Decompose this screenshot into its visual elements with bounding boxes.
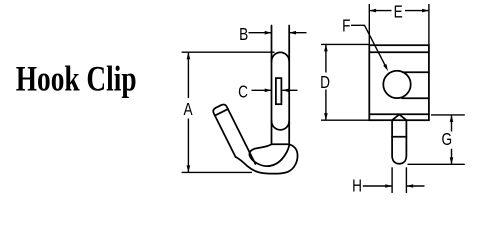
svg-text:Hook Clip: Hook Clip <box>16 59 137 98</box>
dimension B line left <box>249 32 272 34</box>
dimension C line left <box>252 89 272 91</box>
side view: C boss rectangle <box>276 78 282 104</box>
side view: dome top <box>272 52 290 61</box>
svg-text:C: C <box>238 83 248 102</box>
front view: stem cross line <box>392 136 406 138</box>
side view: inner U arc <box>272 121 290 130</box>
front view: top interior band <box>369 51 429 53</box>
dimension G top extension <box>431 114 465 116</box>
dimension A top extension <box>182 51 275 53</box>
side view: hook outer bend <box>236 144 298 173</box>
dimension G bottom extension <box>408 163 465 165</box>
svg-text:D: D <box>320 74 330 93</box>
dimension E left extension <box>368 4 370 45</box>
svg-text:B: B <box>239 25 248 44</box>
side view: strip left edge / B left extension <box>271 26 273 145</box>
dimension H left extension <box>391 167 393 193</box>
dimension A bottom extension <box>182 171 252 173</box>
front view: hole circle <box>383 71 410 98</box>
side view: hook arm with rounded tip <box>212 103 255 170</box>
dimension D bottom extension <box>321 119 369 121</box>
side view: bend far-side loop <box>249 144 289 166</box>
svg-text:A: A <box>183 101 193 120</box>
dimension D top extension <box>321 43 369 45</box>
dimension A line <box>187 52 189 98</box>
dimension E line <box>369 10 391 12</box>
svg-text:G: G <box>441 131 452 150</box>
svg-text:F: F <box>342 17 350 36</box>
front view: slot top line <box>403 71 429 73</box>
dimension H line right <box>406 185 424 187</box>
front view: chevron <box>392 114 406 120</box>
dimension G line <box>451 115 453 132</box>
side view: strip right edge / B right extension <box>288 26 290 145</box>
dimension C line right <box>282 89 297 91</box>
front view: body outline <box>369 45 429 120</box>
front view: lower interior line <box>369 113 429 115</box>
svg-text:H: H <box>352 177 362 196</box>
side view: bend tangent line <box>272 143 290 145</box>
label F leader <box>351 25 386 67</box>
dimension B line right <box>289 32 306 34</box>
dimension H right extension <box>405 167 407 193</box>
front view: slot bottom line <box>402 97 429 99</box>
front view: stem sides <box>392 120 406 164</box>
dimension D line <box>325 44 327 72</box>
svg-text:E: E <box>394 3 403 22</box>
dimension H line left <box>363 185 392 187</box>
dimension E right extension <box>428 4 430 45</box>
